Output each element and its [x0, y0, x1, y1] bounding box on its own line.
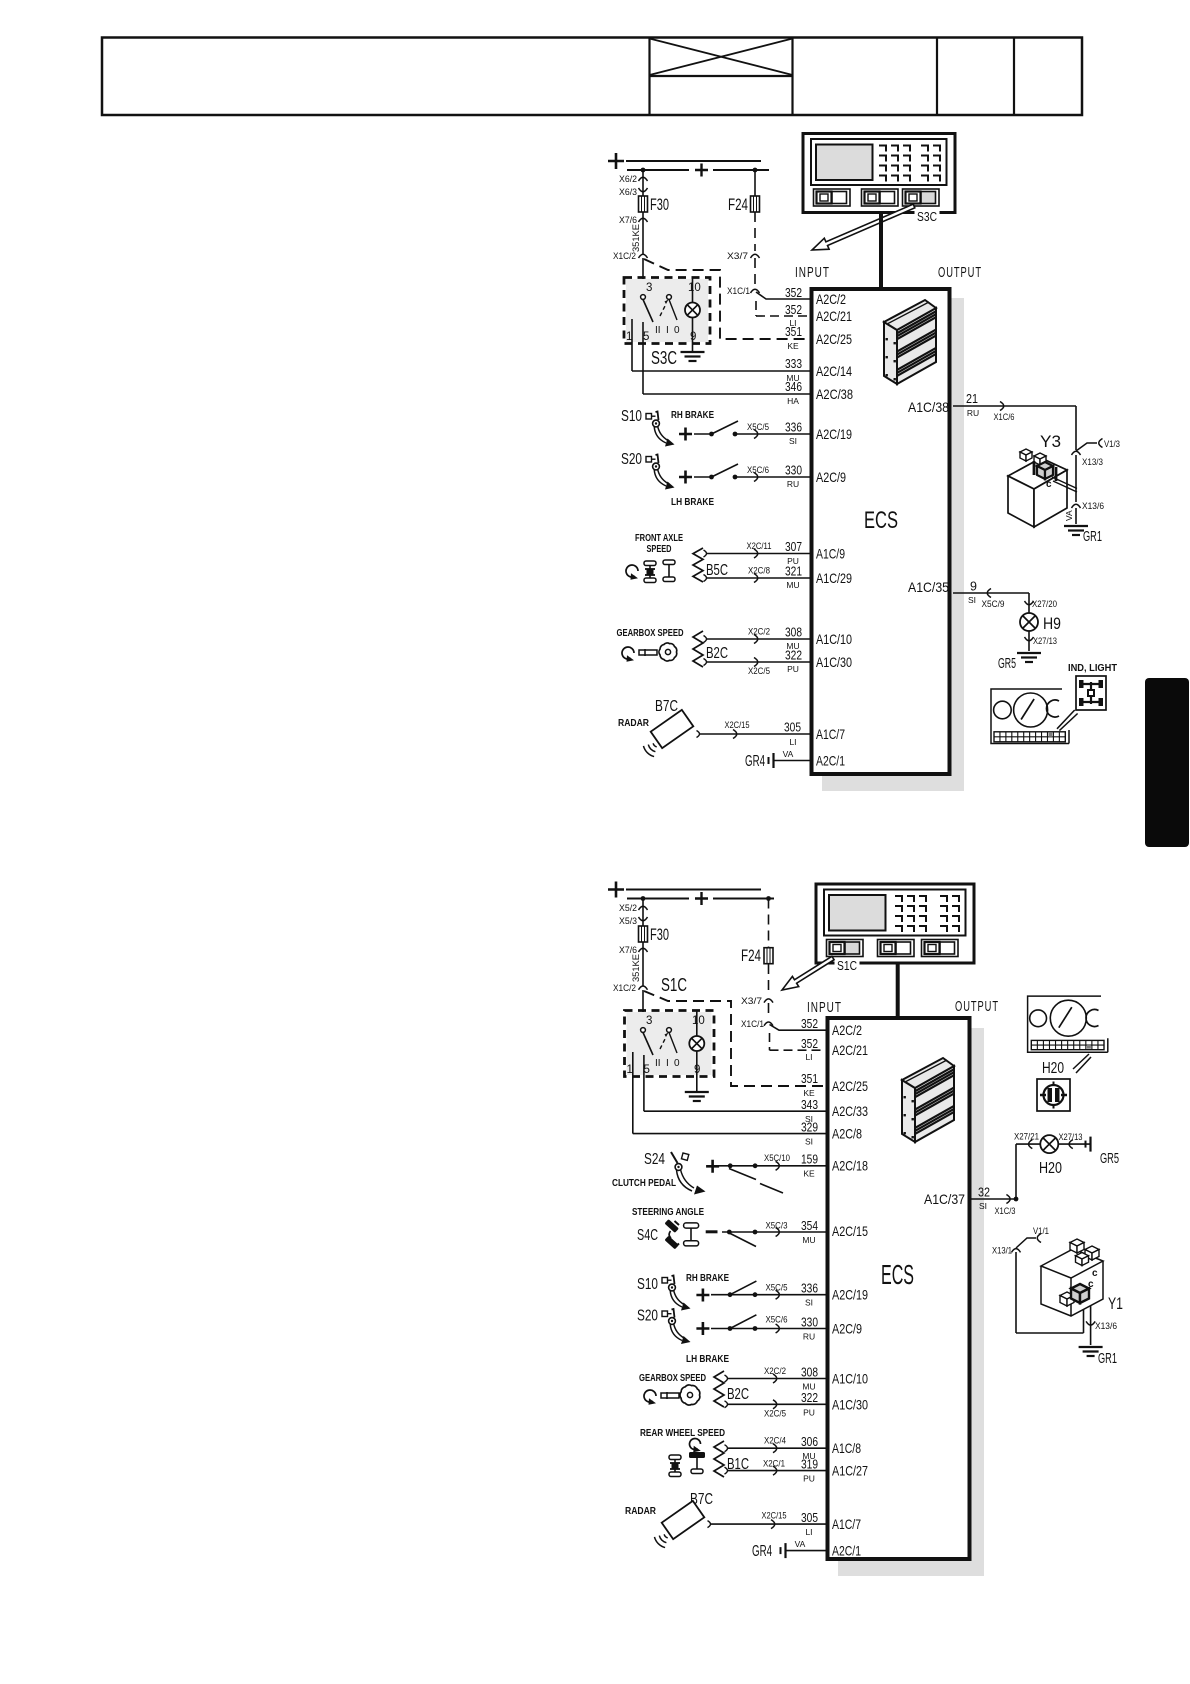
D2 connector X5/2	[639, 906, 648, 910]
D2 dashed wire X1C/2 to A2C/25 (351 KE)	[644, 991, 826, 1086]
svg-text:A1C/8: A1C/8	[832, 1440, 861, 1456]
D1 connector X27/13	[1028, 631, 1030, 651]
svg-text:SI: SI	[789, 436, 797, 446]
D1 connector X6/2	[639, 177, 648, 181]
svg-text:X5C/6: X5C/6	[747, 465, 769, 475]
svg-text:INPUT: INPUT	[807, 999, 842, 1016]
D2 output wire 32 SI	[972, 1198, 1017, 1200]
D1 radio control unit	[803, 134, 955, 213]
svg-text:A2C/9: A2C/9	[832, 1321, 862, 1337]
D2 connector X7/6	[642, 942, 644, 986]
svg-text:322: 322	[801, 1391, 818, 1405]
svg-text:X5C/3: X5C/3	[766, 1220, 788, 1230]
svg-text:OUTPUT: OUTPUT	[955, 998, 999, 1015]
D1 wire X1C/2 to S3C pin 3	[642, 258, 644, 297]
D1 wire 307 PU to A1C/9	[704, 550, 707, 557]
svg-text:RU: RU	[967, 408, 979, 418]
svg-text:ECS: ECS	[864, 507, 898, 534]
svg-text:A2C/25: A2C/25	[816, 331, 852, 347]
D1 connector X1C/2	[639, 254, 648, 258]
svg-text:X3/7: X3/7	[727, 251, 748, 262]
svg-text:c: c	[1046, 479, 1052, 490]
D1 dashed wire 352 LI to A2C/21	[755, 301, 757, 316]
svg-text:A2C/19: A2C/19	[816, 426, 852, 442]
svg-text:X27/20: X27/20	[1032, 599, 1057, 609]
svg-text:F24: F24	[741, 946, 761, 965]
D2 junction node on rail 2 (F24 feed)	[766, 896, 771, 901]
D1 indicator lamp H9	[1020, 613, 1038, 631]
D1 wire 322 PU to A1C/30	[704, 659, 707, 666]
D2 wire up to H20 lamp	[1015, 1144, 1017, 1199]
svg-text:GR1: GR1	[1098, 1350, 1117, 1367]
D2 radio control unit	[816, 884, 974, 963]
D2 connector X1C/2	[639, 986, 648, 990]
D2 fuse F24	[764, 948, 773, 964]
svg-text:GR5: GR5	[1100, 1150, 1119, 1167]
svg-text:X2C/15: X2C/15	[725, 720, 750, 730]
svg-text:ECS: ECS	[881, 1259, 914, 1290]
svg-text:X27/13: X27/13	[1059, 1132, 1083, 1142]
svg-text:VA: VA	[795, 1539, 806, 1549]
D2 wire down to Y1 return	[1015, 1252, 1017, 1333]
svg-text:1: 1	[627, 1064, 633, 1076]
svg-text:10: 10	[688, 282, 701, 294]
svg-text:A2C/9: A2C/9	[816, 469, 846, 485]
svg-text:A1C/35: A1C/35	[908, 579, 949, 595]
svg-text:A2C/38: A2C/38	[816, 386, 853, 402]
svg-text:X2C/2: X2C/2	[748, 627, 770, 637]
svg-text:A1C/37: A1C/37	[924, 1191, 965, 1207]
svg-text:X13/3: X13/3	[1082, 457, 1103, 468]
svg-text:352: 352	[785, 286, 802, 300]
D2 connector X13/1	[1012, 1249, 1021, 1253]
D2 switch S1C box fill	[627, 1012, 712, 1075]
svg-text:F30: F30	[650, 195, 669, 214]
svg-text:KE: KE	[803, 1169, 815, 1179]
D2 junction node wire 32	[1014, 1197, 1019, 1202]
svg-text:X13/6: X13/6	[1082, 501, 1104, 512]
D1 junction node on rail 2 (F24 feed)	[753, 168, 758, 173]
svg-text:X5/3: X5/3	[619, 916, 637, 927]
svg-text:X2C/2: X2C/2	[764, 1366, 786, 1376]
svg-text:352: 352	[785, 303, 802, 317]
svg-text:IND, LIGHT: IND, LIGHT	[1068, 662, 1118, 674]
svg-text:A2C/2: A2C/2	[816, 291, 846, 307]
D1 connector X27/20	[1025, 601, 1034, 605]
svg-text:H20: H20	[1039, 1160, 1062, 1177]
svg-text:A1C/7: A1C/7	[816, 726, 845, 742]
D1 wire 321 MU to A1C/29	[704, 575, 707, 582]
svg-text:RH BRAKE: RH BRAKE	[686, 1273, 729, 1284]
svg-text:S10: S10	[621, 408, 642, 425]
svg-text:S1C: S1C	[837, 958, 857, 973]
svg-text:306: 306	[801, 1435, 818, 1449]
D2 Y1 inner cubes	[1060, 1292, 1074, 1299]
svg-text:10: 10	[692, 1015, 705, 1027]
svg-text:X5C/5: X5C/5	[747, 422, 769, 432]
svg-text:S4C: S4C	[637, 1227, 658, 1244]
svg-text:A2C/1: A2C/1	[832, 1543, 861, 1559]
svg-text:STEERING ANGLE: STEERING ANGLE	[632, 1207, 704, 1218]
svg-text:X1C/1: X1C/1	[741, 1019, 764, 1030]
D2 dashed wire rail to F24	[768, 899, 770, 948]
svg-text:GR4: GR4	[752, 1543, 772, 1560]
svg-text:A1C/29: A1C/29	[816, 570, 852, 586]
svg-text:c: c	[1092, 1268, 1098, 1279]
D1 Y3 solenoid coil cube	[1034, 461, 1056, 481]
D2 connector X1C/1	[764, 1022, 773, 1026]
svg-text:GR4: GR4	[745, 753, 765, 770]
svg-text:LH BRAKE: LH BRAKE	[671, 497, 714, 508]
svg-text:X6/2: X6/2	[619, 174, 637, 185]
D1 ground under S3C lamp	[681, 351, 705, 353]
D2 ground GR5	[1085, 1141, 1087, 1148]
svg-text:A1C/10: A1C/10	[832, 1371, 868, 1387]
D2 connector X27/13	[1069, 1140, 1073, 1149]
svg-text:II: II	[655, 1058, 661, 1069]
svg-text:321: 321	[785, 565, 802, 579]
svg-text:330: 330	[785, 464, 802, 478]
D2 connector X5C/5	[776, 1290, 780, 1299]
D2 solenoid valve block Y1 (open box)	[1041, 1249, 1103, 1316]
svg-text:F24: F24	[728, 195, 748, 214]
D1 wire rail to F30	[642, 170, 644, 196]
svg-text:352: 352	[801, 1037, 818, 1051]
D1 wire 352 to A2C/2	[756, 292, 810, 299]
svg-text:X1C/2: X1C/2	[613, 983, 636, 994]
D1 dashed wire F24 to X3/7	[754, 212, 756, 251]
svg-text:351: 351	[801, 1072, 818, 1086]
svg-text:X2C/4: X2C/4	[764, 1436, 786, 1446]
D2 connector X27/21	[1029, 1140, 1033, 1149]
svg-text:GEARBOX SPEED: GEARBOX SPEED	[617, 628, 684, 639]
svg-text:308: 308	[785, 626, 802, 640]
svg-text:336: 336	[801, 1282, 818, 1296]
D2 cluster pointer lines	[1073, 1054, 1089, 1069]
svg-text:B5C: B5C	[706, 562, 728, 579]
D1 indicator symbol box	[1076, 676, 1106, 710]
svg-text:351KE: 351KE	[631, 224, 642, 252]
D2 connector X5C/6	[776, 1324, 780, 1333]
svg-text:X1C/3: X1C/3	[995, 1206, 1016, 1216]
svg-text:343: 343	[801, 1098, 818, 1112]
D1 output wire 9 SI to H9	[953, 592, 1029, 594]
svg-text:S3C: S3C	[917, 209, 937, 224]
svg-text:9: 9	[970, 580, 977, 594]
svg-text:CLUTCH PEDAL: CLUTCH PEDAL	[612, 1178, 676, 1189]
svg-text:336: 336	[785, 421, 802, 435]
svg-text:OUTPUT: OUTPUT	[938, 264, 982, 281]
D1 wire 305 LI to A1C/7	[697, 731, 700, 738]
svg-text:VA: VA	[783, 749, 794, 759]
svg-text:333: 333	[785, 357, 802, 371]
svg-text:GR1: GR1	[1083, 528, 1102, 545]
svg-text:305: 305	[784, 721, 801, 735]
D1 ECS box shadow	[822, 298, 964, 791]
svg-text:KE: KE	[787, 341, 799, 351]
svg-text:354: 354	[801, 1219, 818, 1233]
svg-text:X5/2: X5/2	[619, 903, 637, 914]
svg-text:32: 32	[978, 1186, 990, 1200]
svg-text:308: 308	[801, 1365, 818, 1379]
svg-text:X5C/9: X5C/9	[982, 599, 1005, 609]
D2 switch S1C dashed box	[625, 1011, 715, 1077]
svg-text:H20: H20	[1042, 1060, 1064, 1077]
D2 indicator lamp H20	[1040, 1135, 1058, 1153]
D1 switch S3C box fill	[626, 279, 708, 342]
D1 wire X13/3 to Y3 and down to X13/6	[1075, 455, 1077, 502]
D2 supply rail 1 with +	[608, 882, 624, 898]
svg-text:RADAR: RADAR	[618, 718, 650, 729]
D1 connector X13/3	[1072, 451, 1081, 455]
svg-text:Y1: Y1	[1108, 1294, 1123, 1313]
svg-text:X5C/6: X5C/6	[766, 1314, 788, 1324]
svg-text:0: 0	[674, 325, 680, 336]
svg-text:X27/21: X27/21	[1014, 1132, 1039, 1142]
D2 connector X5C/3	[776, 1228, 780, 1237]
svg-text:0: 0	[674, 1058, 680, 1069]
svg-text:A2C/19: A2C/19	[832, 1287, 868, 1303]
D2 S1C lamp	[696, 1011, 698, 1037]
D1 Y3 pipe to wire	[1052, 477, 1077, 492]
svg-text:329: 329	[801, 1120, 818, 1134]
D1 wire rail to F24	[754, 170, 756, 196]
svg-text:X6/3: X6/3	[619, 187, 637, 198]
D1 wire 308 MU to A1C/10	[704, 636, 707, 643]
D2 Y1 stub to return wire	[1083, 1309, 1085, 1333]
D1 fuse F24	[751, 196, 760, 212]
svg-text:LI: LI	[789, 318, 796, 328]
D2 ground GR1	[1079, 1346, 1103, 1348]
svg-text:REAR WHEEL SPEED: REAR WHEEL SPEED	[640, 1428, 725, 1439]
D2 wire Y1 to ground	[1090, 1306, 1092, 1345]
D2 fuse F30	[639, 926, 648, 942]
D2 supply rail 2 with +	[627, 898, 689, 900]
D2 S1C switch contacts and blade	[641, 1028, 646, 1033]
D2 wire 352 to A2C/2	[770, 1025, 827, 1031]
svg-text:X13/1: X13/1	[992, 1246, 1012, 1257]
svg-text:346: 346	[785, 380, 802, 394]
svg-text:352: 352	[801, 1017, 818, 1031]
D1 Y3 connector cubes	[1020, 449, 1032, 455]
svg-text:S20: S20	[621, 451, 642, 468]
D1 dashed wire X3/7 to X1C/1	[754, 258, 756, 286]
svg-text:X13/6: X13/6	[1095, 1321, 1117, 1332]
svg-text:S1C: S1C	[661, 975, 687, 995]
D2 instrument cluster H20	[1028, 996, 1108, 1052]
D2 wire rail to F30	[642, 899, 644, 927]
svg-text:X1C/6: X1C/6	[994, 412, 1015, 422]
svg-text:3: 3	[646, 282, 652, 294]
svg-text:A2C/14: A2C/14	[816, 363, 852, 379]
D1 connector X6/3	[639, 188, 648, 192]
D1 wire S3C pin5 to A2C/38 (346 HA)	[642, 322, 644, 394]
D1 cluster pointer lines	[1057, 710, 1075, 729]
D1 ground GR1	[1064, 525, 1088, 527]
svg-text:PU: PU	[787, 664, 799, 674]
svg-text:B2C: B2C	[706, 645, 728, 662]
svg-text:RU: RU	[803, 1332, 815, 1342]
D1 connector X7/6	[642, 212, 644, 255]
svg-text:A1C/7: A1C/7	[832, 1516, 861, 1532]
D2 ECS control unit box	[828, 1018, 970, 1559]
svg-text:322: 322	[785, 649, 802, 663]
svg-text:RH BRAKE: RH BRAKE	[671, 410, 714, 421]
svg-text:X2C/8: X2C/8	[748, 566, 770, 576]
D2 wire 308 MU to A1C/10	[725, 1375, 728, 1382]
D2 ECU 3D module	[915, 1066, 954, 1142]
svg-text:F30: F30	[650, 925, 669, 944]
svg-text:X2C/1: X2C/1	[763, 1459, 785, 1469]
svg-text:c: c	[1088, 1279, 1094, 1290]
svg-text:FRONT AXLE: FRONT AXLE	[635, 533, 683, 544]
svg-text:A1C/38: A1C/38	[908, 399, 949, 415]
svg-text:SPEED: SPEED	[647, 544, 672, 555]
svg-text:X3/7: X3/7	[741, 996, 762, 1007]
svg-text:159: 159	[801, 1152, 818, 1166]
svg-text:X1C/2: X1C/2	[613, 251, 636, 262]
black side tab	[1145, 678, 1189, 847]
D2 connector X5C/10	[776, 1161, 780, 1170]
svg-text:B7C: B7C	[655, 698, 678, 715]
svg-text:A2C/15: A2C/15	[832, 1223, 868, 1239]
D2 wire X1C/2 to S1C pin 3	[642, 990, 644, 1030]
D2 connector X3/7	[764, 999, 773, 1003]
svg-text:319: 319	[801, 1457, 818, 1471]
svg-text:X5C/5: X5C/5	[766, 1283, 788, 1293]
svg-text:GEARBOX SPEED: GEARBOX SPEED	[639, 1373, 706, 1384]
svg-text:SI: SI	[979, 1201, 987, 1211]
D1 connector X1C/1	[751, 289, 760, 293]
D1 dashed wire X1C/2 to A2C/25 (351 KE)	[644, 259, 810, 339]
svg-text:RADAR: RADAR	[625, 1506, 657, 1517]
svg-text:PU: PU	[803, 1474, 815, 1484]
header title block	[102, 38, 1082, 116]
svg-text:SI: SI	[805, 1137, 813, 1147]
svg-text:351KE: 351KE	[631, 954, 642, 982]
D1 ECS control unit box	[812, 289, 950, 774]
svg-text:A2C/21: A2C/21	[832, 1042, 868, 1058]
svg-text:LI: LI	[805, 1052, 812, 1062]
svg-text:LI: LI	[789, 737, 796, 747]
svg-text:A2C/1: A2C/1	[816, 753, 845, 769]
svg-text:305: 305	[801, 1511, 818, 1525]
svg-text:SI: SI	[968, 595, 976, 605]
D2 junction node on rail 2 (F30 feed)	[641, 896, 646, 901]
svg-text:MU: MU	[802, 1382, 815, 1392]
svg-text:21: 21	[966, 392, 978, 406]
svg-text:INPUT: INPUT	[795, 264, 830, 281]
svg-text:X1C/1: X1C/1	[727, 286, 750, 297]
svg-text:S24: S24	[644, 1151, 665, 1168]
D2 dashed wire F24 to X3/7	[768, 964, 770, 996]
svg-text:A2C/2: A2C/2	[832, 1022, 862, 1038]
svg-text:A2C/21: A2C/21	[816, 308, 852, 324]
D2 wire 322 PU to A1C/30	[725, 1401, 728, 1408]
svg-text:A2C/33: A2C/33	[832, 1103, 868, 1119]
D1 fuse F30	[639, 196, 648, 212]
D1 ECU 3D module	[897, 308, 936, 384]
D1 supply rail 2 with +	[627, 169, 689, 171]
D2 wire 305 LI to A1C/7	[708, 1521, 711, 1528]
D1 connector X5C/5	[754, 430, 758, 439]
D1 thick link radio to ECS	[879, 213, 883, 290]
svg-text:X5C/10: X5C/10	[764, 1153, 790, 1163]
D2 Y1 connector cubes	[1070, 1239, 1084, 1246]
D2 S4C axle symbol	[684, 1223, 699, 1228]
D2 connector V1/1 branch	[1016, 1238, 1036, 1248]
svg-text:X2C/15: X2C/15	[762, 1511, 787, 1521]
svg-text:LI: LI	[805, 1527, 812, 1537]
svg-text:A1C/10: A1C/10	[816, 631, 852, 647]
D2 wire S1C pin1 to A2C/8 (329 SI)	[632, 1052, 634, 1134]
header crossed box	[650, 75, 793, 77]
D2 ECS box shadow	[838, 1028, 984, 1576]
svg-text:SI: SI	[805, 1298, 813, 1308]
svg-text:VA: VA	[1064, 510, 1074, 521]
svg-text:B2C: B2C	[727, 1386, 749, 1403]
svg-text:II: II	[655, 325, 661, 336]
svg-text:I: I	[666, 1058, 669, 1069]
D1 wire S3C pin1 to A2C/14 (333 MU)	[631, 319, 633, 371]
svg-text:A2C/25: A2C/25	[832, 1078, 868, 1094]
D1 junction node on rail 2 (F30 feed)	[641, 168, 646, 173]
svg-text:MU: MU	[786, 580, 799, 590]
D1 switch S3C dashed box	[624, 278, 710, 344]
D1 ground GR5	[1017, 652, 1041, 654]
svg-text:H9: H9	[1043, 614, 1061, 633]
svg-text:307: 307	[785, 540, 802, 554]
D2 connector X13/6	[1086, 1321, 1095, 1325]
svg-text:V1/1: V1/1	[1033, 1226, 1049, 1236]
D2 dashed wire X3/7 to X1C/1	[768, 1003, 770, 1019]
D1 instrument cluster	[991, 689, 1069, 744]
svg-text:S10: S10	[637, 1276, 658, 1293]
svg-text:A1C/30: A1C/30	[816, 654, 852, 670]
svg-text:A2C/18: A2C/18	[832, 1158, 868, 1174]
svg-text:X2C/11: X2C/11	[747, 541, 772, 551]
svg-text:X2C/5: X2C/5	[748, 666, 770, 676]
svg-text:S20: S20	[637, 1308, 658, 1325]
D2 connector X5/3	[639, 917, 648, 921]
svg-text:GR5: GR5	[998, 655, 1016, 672]
D1 connector X3/7	[751, 254, 760, 258]
svg-text:RU: RU	[787, 479, 799, 489]
svg-text:HA: HA	[787, 396, 799, 406]
svg-text:X2C/5: X2C/5	[764, 1409, 786, 1419]
D1 S3C switch contacts and blade	[641, 295, 646, 300]
D1 connector X5C/6	[754, 473, 758, 482]
svg-text:A2C/8: A2C/8	[832, 1126, 862, 1142]
D2 thick link radio to ECS	[896, 963, 900, 1018]
header divider cell lines	[648, 38, 650, 116]
svg-text:KE: KE	[803, 1088, 815, 1098]
svg-text:S3C: S3C	[651, 348, 677, 368]
D2 wire 306 MU to A1C/8	[725, 1445, 728, 1452]
svg-text:A1C/9: A1C/9	[816, 546, 845, 562]
svg-text:A1C/30: A1C/30	[832, 1396, 868, 1412]
svg-text:V1/3: V1/3	[1104, 439, 1120, 449]
svg-text:330: 330	[801, 1315, 818, 1329]
D2 diff lock symbol box	[1037, 1079, 1070, 1111]
svg-text:I: I	[666, 325, 669, 336]
D2 ground under S1C lamp	[685, 1091, 709, 1093]
svg-text:A1C/27: A1C/27	[832, 1463, 868, 1479]
svg-text:MU: MU	[802, 1235, 815, 1245]
D1 S3C lamp	[692, 277, 694, 302]
svg-text:3: 3	[646, 1015, 652, 1027]
svg-text:X27/13: X27/13	[1033, 636, 1057, 646]
